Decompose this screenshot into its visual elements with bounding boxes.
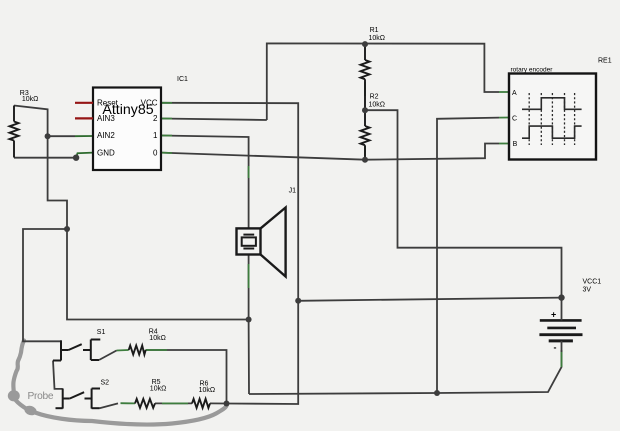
- encoder waveform B trace: [522, 126, 582, 138]
- wire: IC pin2 to corner: [161, 119, 267, 121]
- battery top lead: [561, 298, 563, 321]
- wire: S2 exit diagonal: [100, 403, 119, 408]
- green pin stub IC VCC: [161, 102, 172, 104]
- wire: IC pin0 to R2 bottom to encoder B: [161, 144, 499, 160]
- speaker J1 inner rect: [242, 237, 256, 245]
- svg-text:-: -: [554, 343, 557, 353]
- svg-text:10kΩ: 10kΩ: [22, 96, 39, 103]
- svg-text:1: 1: [153, 131, 158, 140]
- IC U1 Attiny85 box: [93, 88, 161, 171]
- wire: AIN2 node down to left loop node: [48, 136, 67, 229]
- svg-text:2: 2: [153, 114, 158, 123]
- wire: vcc node down to R5R6 row: [227, 301, 299, 404]
- node: R1-R2 junction: [362, 107, 368, 113]
- speaker J1 horn: [261, 208, 286, 277]
- svg-text:B: B: [513, 141, 518, 148]
- node: battery plus: [558, 294, 564, 300]
- battery VCC1 plate long bottom: [539, 333, 582, 336]
- speaker J1 inner plate top: [243, 234, 254, 236]
- svg-text:A: A: [512, 90, 517, 97]
- svg-text:+: +: [551, 310, 556, 320]
- speaker J1 inner plate bottom: [243, 248, 254, 250]
- wire: R4 right to node: [146, 350, 227, 404]
- wire: top net from pin2 corner to encoder A corner: [267, 43, 499, 120]
- svg-text:10kΩ: 10kΩ: [369, 35, 386, 42]
- wire: S1 bottom to S2 top: [53, 361, 63, 389]
- battery VCC1 plate long top: [540, 319, 582, 322]
- green segment R2 bottom: [364, 146, 366, 156]
- encoder waveform A trace: [522, 98, 582, 110]
- svg-text:Attiny85: Attiny85: [102, 102, 153, 118]
- wire: IC pin VCC to vcc node: [161, 103, 298, 301]
- svg-text:J1: J1: [289, 188, 297, 195]
- svg-text:0: 0: [153, 148, 158, 157]
- resistor R2: [361, 110, 370, 160]
- node: vcc mid: [295, 298, 301, 304]
- green segment R1-R2: [364, 82, 366, 96]
- svg-text:rotary encoder: rotary encoder: [511, 67, 554, 74]
- svg-text:3V: 3V: [583, 287, 592, 294]
- wire: R3 bottom to GND node: [14, 157, 76, 159]
- svg-text:10kΩ: 10kΩ: [150, 386, 167, 393]
- wire: R5 to R6: [155, 402, 192, 404]
- svg-text:Probe: Probe: [28, 391, 54, 402]
- svg-text:10kΩ: 10kΩ: [369, 102, 386, 109]
- battery bottom lead: [561, 341, 563, 352]
- svg-text:VCC1: VCC1: [583, 279, 602, 286]
- wire: R3 top loop to AIN2 node: [14, 106, 48, 137]
- green segment battery bottom: [561, 350, 563, 367]
- green segment R5 left: [121, 402, 136, 404]
- svg-text:AIN2: AIN2: [97, 131, 115, 140]
- green pin stub encoder B: [499, 143, 509, 145]
- wire: AIN2 node to IC: [48, 135, 75, 137]
- red stub wire Reset: [75, 102, 93, 104]
- wire: speaker bottom down to node: [248, 255, 250, 395]
- svg-text:GND: GND: [97, 148, 115, 157]
- probe blob lower: [23, 404, 38, 417]
- green pin stub encoder C: [499, 117, 509, 119]
- battery VCC1 plate short bottom: [549, 339, 573, 342]
- svg-text:10kΩ: 10kΩ: [149, 335, 166, 342]
- svg-text:S1: S1: [97, 329, 106, 336]
- svg-text:S2: S2: [101, 380, 110, 387]
- green pin stub IC 2: [161, 118, 172, 120]
- wire: battery minus to speaker net: [249, 350, 562, 394]
- green segment R4 right: [146, 349, 168, 351]
- green segment R4 left: [117, 349, 129, 352]
- wire: vcc node to battery plus: [298, 298, 561, 301]
- svg-text:10kΩ: 10kΩ: [199, 387, 216, 394]
- switch S2: [56, 389, 101, 409]
- node: R4-R6 junction: [224, 401, 230, 407]
- green segment speaker top lead: [248, 166, 250, 178]
- svg-text:IC1: IC1: [177, 76, 188, 83]
- svg-text:R1: R1: [370, 27, 379, 34]
- node: R2 bottom: [362, 157, 368, 163]
- wire: S1 exit diagonal: [99, 351, 117, 361]
- svg-text:R2: R2: [370, 94, 379, 101]
- resistor R4: [129, 346, 146, 355]
- red stub wire AIN3: [75, 117, 93, 119]
- wire: left loop node to S1: [23, 229, 67, 341]
- svg-text:RE1: RE1: [598, 58, 612, 65]
- resistor R3: [10, 106, 19, 158]
- svg-text:C: C: [512, 115, 517, 122]
- green pin stub encoder A: [499, 91, 509, 93]
- resistor R6: [192, 399, 210, 408]
- green pin stub IC 0: [161, 152, 172, 154]
- battery VCC1 plate short: [547, 327, 576, 330]
- wire: IC pin1 to speaker top: [161, 136, 249, 229]
- node: left loop: [64, 226, 70, 232]
- wire: R2 top to battery plus rail: [365, 110, 562, 297]
- green segment R5-R6 middle: [162, 402, 188, 404]
- node: encoder C battery minus: [434, 390, 440, 396]
- node: GND wire: [73, 155, 79, 161]
- wire: GND node step up to IC GND pin: [76, 153, 93, 158]
- speaker J1 body: [237, 228, 261, 254]
- green pin stub IC 1: [161, 135, 172, 137]
- node: speaker net: [246, 317, 252, 323]
- green pin stub IC AIN2: [75, 135, 93, 137]
- switch S1: [53, 340, 100, 361]
- resistor R5: [135, 399, 155, 408]
- green segment speaker bottom lead: [248, 264, 250, 288]
- encoder waveform dashed gridlines: [529, 93, 574, 145]
- node: AIN2-R3: [45, 133, 51, 139]
- node: R1 top: [362, 41, 368, 47]
- rotary encoder RE1 box: [509, 74, 596, 160]
- probe annotation squiggle: [13, 341, 226, 425]
- wire: R6 right to node: [210, 402, 227, 404]
- wire: left loop node to speaker node: [67, 229, 249, 320]
- resistor R1: [361, 44, 370, 110]
- wire: encoder C down to battery minus rail: [437, 118, 499, 393]
- probe blob upper: [8, 390, 20, 401]
